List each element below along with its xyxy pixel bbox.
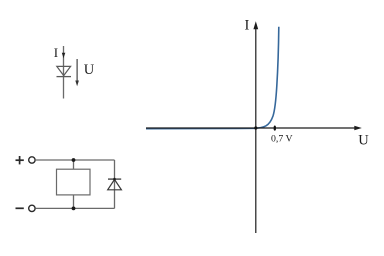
svg-text:I: I — [54, 45, 58, 60]
svg-text:U: U — [84, 62, 95, 78]
svg-text:U: U — [358, 132, 369, 148]
svg-text:0,7 V: 0,7 V — [271, 134, 293, 145]
svg-text:I: I — [245, 18, 250, 34]
